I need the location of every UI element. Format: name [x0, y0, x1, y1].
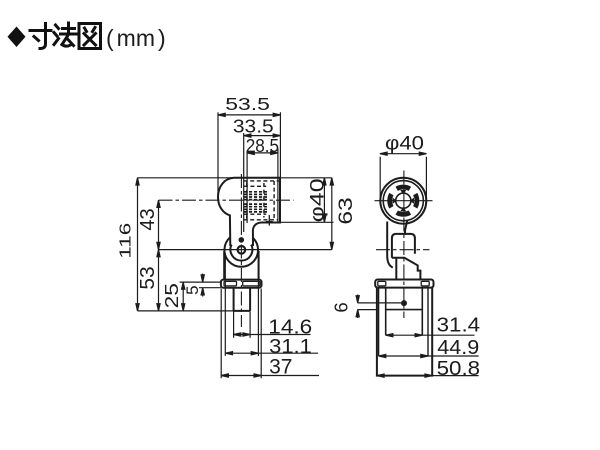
- dimension 5: [199, 287, 221, 289]
- roller hidden lines (dashed): [244, 181, 280, 220]
- bracket inner walls: [378, 288, 380, 356]
- dimension 6: [358, 302, 402, 304]
- dimension phi40 front: [323, 178, 325, 223]
- yoke horizontal centerline: [376, 249, 430, 251]
- svg-text:φ40: φ40: [385, 134, 424, 155]
- title kanji 寸法図 (drawn as paths): [30, 23, 101, 49]
- title diamond: [8, 27, 26, 48]
- dimension 14.6: [233, 312, 235, 338]
- body outline: [218, 178, 280, 311]
- wheel hub circle: [230, 245, 252, 261]
- yoke side: [375, 221, 433, 376]
- dimension 31.4: [386, 334, 475, 336]
- svg-text:53: 53: [137, 266, 159, 289]
- dimension 31.1: [224, 253, 226, 356]
- svg-text:116: 116: [118, 223, 135, 259]
- 法: [56, 25, 59, 29]
- dimension 28.5: [246, 151, 248, 224]
- fork sides: [223, 251, 225, 280]
- axle pin dot: [239, 237, 245, 243]
- svg-text:31.4: 31.4: [437, 315, 481, 337]
- spoke lobes (clover pattern): [387, 185, 419, 217]
- flange front: [221, 280, 262, 288]
- roller knurl texture: [244, 192, 267, 212]
- dimension 116: [137, 178, 139, 311]
- svg-text:53.5: 53.5: [225, 94, 270, 114]
- dimension phi40 side: [379, 157, 381, 201]
- svg-text:φ40: φ40: [308, 178, 329, 222]
- dimension 37: [220, 289, 222, 379]
- dimension 53: [158, 250, 160, 311]
- dimension 44.9: [379, 355, 479, 357]
- svg-text:33.5: 33.5: [233, 116, 274, 137]
- svg-text:28.5: 28.5: [246, 135, 279, 156]
- 図: [79, 24, 101, 49]
- dimension 43: [158, 200, 160, 249]
- svg-text:31.1: 31.1: [269, 335, 312, 358]
- vertical centerline front: [240, 174, 242, 327]
- wheel outer circle: [224, 237, 258, 266]
- axle circle: [238, 246, 246, 254]
- stem: [234, 288, 251, 311]
- roller step brackets: [246, 181, 248, 220]
- flange side: [375, 280, 433, 288]
- bracket box: [377, 288, 432, 376]
- inner plate: [385, 288, 387, 336]
- svg-text:5: 5: [183, 285, 202, 294]
- dimension 63: [331, 178, 333, 250]
- 寸: [30, 29, 51, 32]
- svg-text:(mm): (mm): [106, 25, 166, 51]
- dimension 25: [180, 281, 221, 283]
- wheel end circles: [380, 178, 426, 224]
- screw hole dot: [401, 300, 407, 306]
- flange slots front: [224, 281, 260, 286]
- crosshair centerlines: [375, 200, 433, 202]
- svg-text:43: 43: [137, 208, 159, 230]
- screw center cross: [266, 215, 273, 226]
- horizontal centerline front: [159, 199, 294, 201]
- top dimension 53.5: [217, 112, 219, 196]
- svg-text:63: 63: [335, 197, 357, 224]
- dimension 50.8: [432, 375, 478, 377]
- svg-text:44.9: 44.9: [437, 336, 479, 359]
- svg-text:25: 25: [161, 283, 182, 308]
- svg-text:37: 37: [269, 356, 292, 379]
- long horizontals: [138, 177, 332, 179]
- svg-text:6: 6: [331, 302, 352, 312]
- flange slots side: [378, 281, 429, 286]
- svg-text:50.8: 50.8: [437, 357, 481, 380]
- dimension 33.5: [243, 133, 245, 232]
